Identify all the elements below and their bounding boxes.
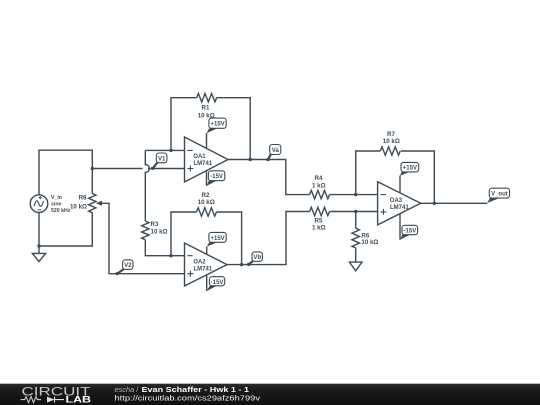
- svg-text:escha /: escha /: [115, 385, 140, 394]
- svg-text:10 kΩ: 10 kΩ: [361, 239, 378, 246]
- svg-text:R2: R2: [202, 192, 210, 199]
- svg-text:sine: sine: [51, 202, 61, 208]
- wire R5 to OA3 plus input: [330, 211, 378, 213]
- resistor R8 potentiometer: [89, 194, 96, 213]
- svg-text:LM741: LM741: [390, 205, 409, 211]
- flag +15V OA3: [400, 162, 419, 175]
- node flag V1: [151, 153, 167, 170]
- svg-text:LAB: LAB: [66, 395, 92, 405]
- svg-text:-15V: -15V: [404, 229, 417, 235]
- svg-text:1 kΩ: 1 kΩ: [312, 224, 326, 231]
- svg-text:Evan Schaffer - Hwk 1 - 1: Evan Schaffer - Hwk 1 - 1: [142, 385, 250, 394]
- wire R1 feedback loop right: [217, 98, 251, 160]
- op-amp OA2: [185, 243, 228, 286]
- node flag Va: [266, 145, 281, 162]
- svg-text:OA1: OA1: [193, 154, 206, 160]
- wire OA1 plus input from pot top: [92, 168, 184, 170]
- junction node dots: [37, 149, 436, 267]
- flag +15V OA2: [207, 232, 227, 246]
- wire R7 feedback loop right: [401, 151, 434, 203]
- wire R6 top stub: [355, 212, 357, 229]
- svg-text:V_in: V_in: [51, 195, 62, 201]
- svg-text:10 kΩ: 10 kΩ: [198, 113, 215, 120]
- wire V_in bottom to R8 bottom: [39, 212, 92, 246]
- svg-text:+15V: +15V: [211, 122, 225, 128]
- svg-text:R4: R4: [315, 175, 323, 182]
- op-amp OA3: [378, 182, 421, 225]
- resistor R2: [197, 208, 217, 216]
- resistor R3: [142, 221, 149, 240]
- svg-text:10 kΩ: 10 kΩ: [151, 228, 168, 235]
- flag -15V OA1: [207, 171, 225, 186]
- resistor R6: [352, 228, 359, 248]
- wire OA1 minus input: [145, 149, 184, 151]
- ground left: [32, 253, 45, 261]
- resistor R1: [197, 94, 217, 102]
- svg-text:V_out: V_out: [491, 192, 508, 198]
- svg-text:V1: V1: [158, 156, 166, 162]
- svg-text:R3: R3: [151, 221, 159, 228]
- footer logo squiggle resistor and diode: [21, 397, 65, 403]
- resistor R7: [380, 147, 400, 155]
- svg-text:10 kΩ: 10 kΩ: [198, 199, 215, 206]
- flag V_out: [487, 188, 509, 203]
- svg-text:520 kHz: 520 kHz: [51, 208, 71, 214]
- wire OA1 output to node Va to R4: [228, 160, 310, 195]
- svg-text:R7: R7: [387, 131, 395, 138]
- wire OA2 output to node Vb to R5: [227, 212, 310, 265]
- wire R7 feedback loop left: [356, 151, 381, 195]
- svg-text:Vb: Vb: [253, 255, 261, 261]
- svg-text:R1: R1: [202, 105, 210, 112]
- svg-text:-15V: -15V: [210, 174, 223, 180]
- svg-text:+15V: +15V: [403, 166, 417, 172]
- svg-text:R8: R8: [79, 195, 87, 202]
- svg-text:LM741: LM741: [194, 161, 213, 167]
- flag -15V OA3: [400, 225, 418, 239]
- svg-text:OA2: OA2: [193, 259, 206, 265]
- wire R2 feedback loop right: [217, 212, 242, 265]
- svg-text:Va: Va: [272, 148, 280, 154]
- wire R2 feedback loop left: [171, 212, 197, 256]
- wire R6 bottom to ground: [355, 248, 357, 262]
- svg-text:LM741: LM741: [194, 266, 213, 272]
- ground right: [349, 262, 362, 271]
- svg-text:1 kΩ: 1 kΩ: [312, 183, 326, 190]
- svg-text:R5: R5: [315, 217, 323, 224]
- wire R1 feedback loop left: [171, 98, 197, 151]
- wire pot wiper to node V2 to OA2 plus input: [101, 203, 185, 273]
- wire V_in top to R8 top: [39, 150, 92, 195]
- node flag Vb: [247, 252, 262, 266]
- flag -15V OA2: [207, 277, 225, 291]
- node flag V2: [116, 260, 133, 275]
- wire OA3 output to V_out: [421, 202, 487, 204]
- svg-text:+15V: +15V: [211, 236, 225, 242]
- resistor R4: [310, 190, 330, 198]
- svg-text:-15V: -15V: [211, 280, 224, 286]
- svg-text:http://circuitlab.com/cs29afz6: http://circuitlab.com/cs29afz6h799v: [115, 394, 261, 403]
- wire R4 to OA3 minus input: [330, 194, 378, 196]
- svg-text:OA3: OA3: [390, 198, 403, 204]
- wire R3 bottom to OA2 minus input: [145, 240, 184, 256]
- svg-text:10 kΩ: 10 kΩ: [383, 138, 400, 145]
- op-amp OA1: [185, 137, 229, 182]
- svg-text:V2: V2: [124, 263, 132, 269]
- flag +15V OA1: [206, 118, 226, 133]
- wire R3 branch with hop over plus wire: [145, 150, 149, 221]
- pot wiper arrow: [96, 201, 102, 206]
- svg-text:10 kΩ: 10 kΩ: [70, 204, 87, 211]
- source V_in: [30, 195, 48, 213]
- resistor R5: [310, 207, 330, 215]
- wire ground stub left: [38, 246, 40, 253]
- footer bar: [0, 383, 540, 384]
